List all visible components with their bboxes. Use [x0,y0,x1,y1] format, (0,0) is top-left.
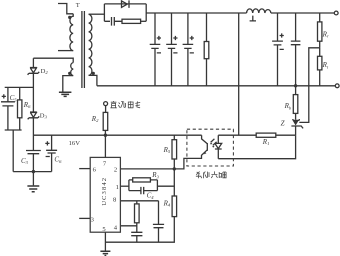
wire 16V rail [33,134,201,136]
resistor R5 [173,135,175,169]
label optocoupler [196,171,226,178]
wire pin8 [120,200,158,202]
op-amp U1 UC3842 box [90,157,120,232]
svg-text:16V: 16V [69,140,81,147]
terminal + output [334,11,338,15]
optocoupler dashed box [187,129,234,166]
resistor R6 [19,87,21,130]
wire pin6 stub [79,168,90,170]
svg-text:T: T [76,2,80,9]
diode (snubber clamp) [122,0,130,8]
svg-text:1: 1 [116,184,119,191]
wire primary bottom stub [58,50,73,52]
svg-text:UC3842: UC3842 [101,177,108,206]
svg-text:Z: Z [281,120,285,128]
resistor R3 [129,179,158,181]
wire bottom output rail [97,85,335,87]
light arrows [211,139,217,146]
resistor R4 [172,196,177,217]
wire pin5 to ground [104,232,106,251]
wire secondary top to snubber [89,13,105,15]
resistor R2 [104,106,106,136]
transformer secondary winding [89,14,92,75]
ground (VCC bus) [27,186,39,192]
phototransistor [174,135,207,169]
node dot aux winding bottom [68,72,71,75]
wire pin2 to feedback node [120,168,174,170]
capacitor (oscillator CT) [131,232,142,242]
node dot VCC rail [104,134,107,137]
wire startup branch bottom [5,130,22,172]
snubber network frame [104,4,146,21]
node dot VCC bus [32,170,35,173]
wire pin3 stub [79,217,90,219]
capacitor (filter 3) [183,13,194,86]
wire pin1 [120,185,128,187]
wire pin4 [120,225,136,227]
wire startup branch top [5,86,34,88]
resistor (oscillator RT) [136,201,138,232]
zener diode D2 [28,68,40,75]
capacitor C5 [1,87,15,130]
node dot secondary bottom [92,72,95,75]
wire Z anode to LED cathode [218,135,295,159]
ground (primary) [59,92,72,96]
opto LED [215,135,222,159]
zener diode D3 [28,112,40,119]
capacitor C3 [26,151,41,172]
wire left column top [32,58,34,67]
wire comp loop to column [157,185,174,187]
wire sense tap down to opto [238,13,240,135]
capacitor C4 [129,187,158,194]
capacitor (Vref bypass) [153,201,164,242]
capacitor (snubber) [104,17,122,26]
svg-text:2: 2 [114,167,117,174]
resistor Rt [319,48,321,86]
wire to left ground [32,172,34,186]
transformer core [82,11,85,88]
wire left column mid [32,73,34,112]
wire divider tap [299,48,319,123]
capacitor (filter 2) [166,13,177,86]
resistor R1 [256,133,276,137]
compensation loop frame [129,180,158,191]
terminal - output [335,84,339,88]
capacitor (output electrolytic) [272,13,283,86]
label DC bus (zhi liu mu xian) [110,101,140,108]
wire top output rail [146,12,334,14]
transformer aux winding (lower left) [71,63,73,76]
resistor (snubber) [122,19,141,23]
resistor (bleeder) [206,13,208,86]
wire aux winding top from left column [33,58,73,62]
wire feedback column [173,169,175,196]
node dot on bottom rail [294,84,297,87]
resistor Rb [295,86,297,120]
ground (controller) [100,251,110,255]
wire primary top stub [58,4,73,14]
node dot primary top [68,16,71,19]
capacitor C6 [46,135,57,171]
wire secondary bottom to output rail [89,75,97,85]
shunt regulator Z [293,119,299,120]
inductor L [247,9,271,13]
node dot feedback [173,167,176,170]
wire opto LED top / R1 node [218,134,256,136]
wire left column lower [32,118,34,151]
capacitor (filter 1) [150,13,161,86]
wire pin7 stub [104,135,106,157]
transformer primary winding (upper left) [70,14,73,51]
resistor Rr [319,13,321,48]
terminal DC bus [104,102,108,106]
capacitor (output ceramic) [291,13,301,86]
wire aux winding bottom to ground [63,76,73,92]
wire VCC bus bottom [13,171,51,173]
